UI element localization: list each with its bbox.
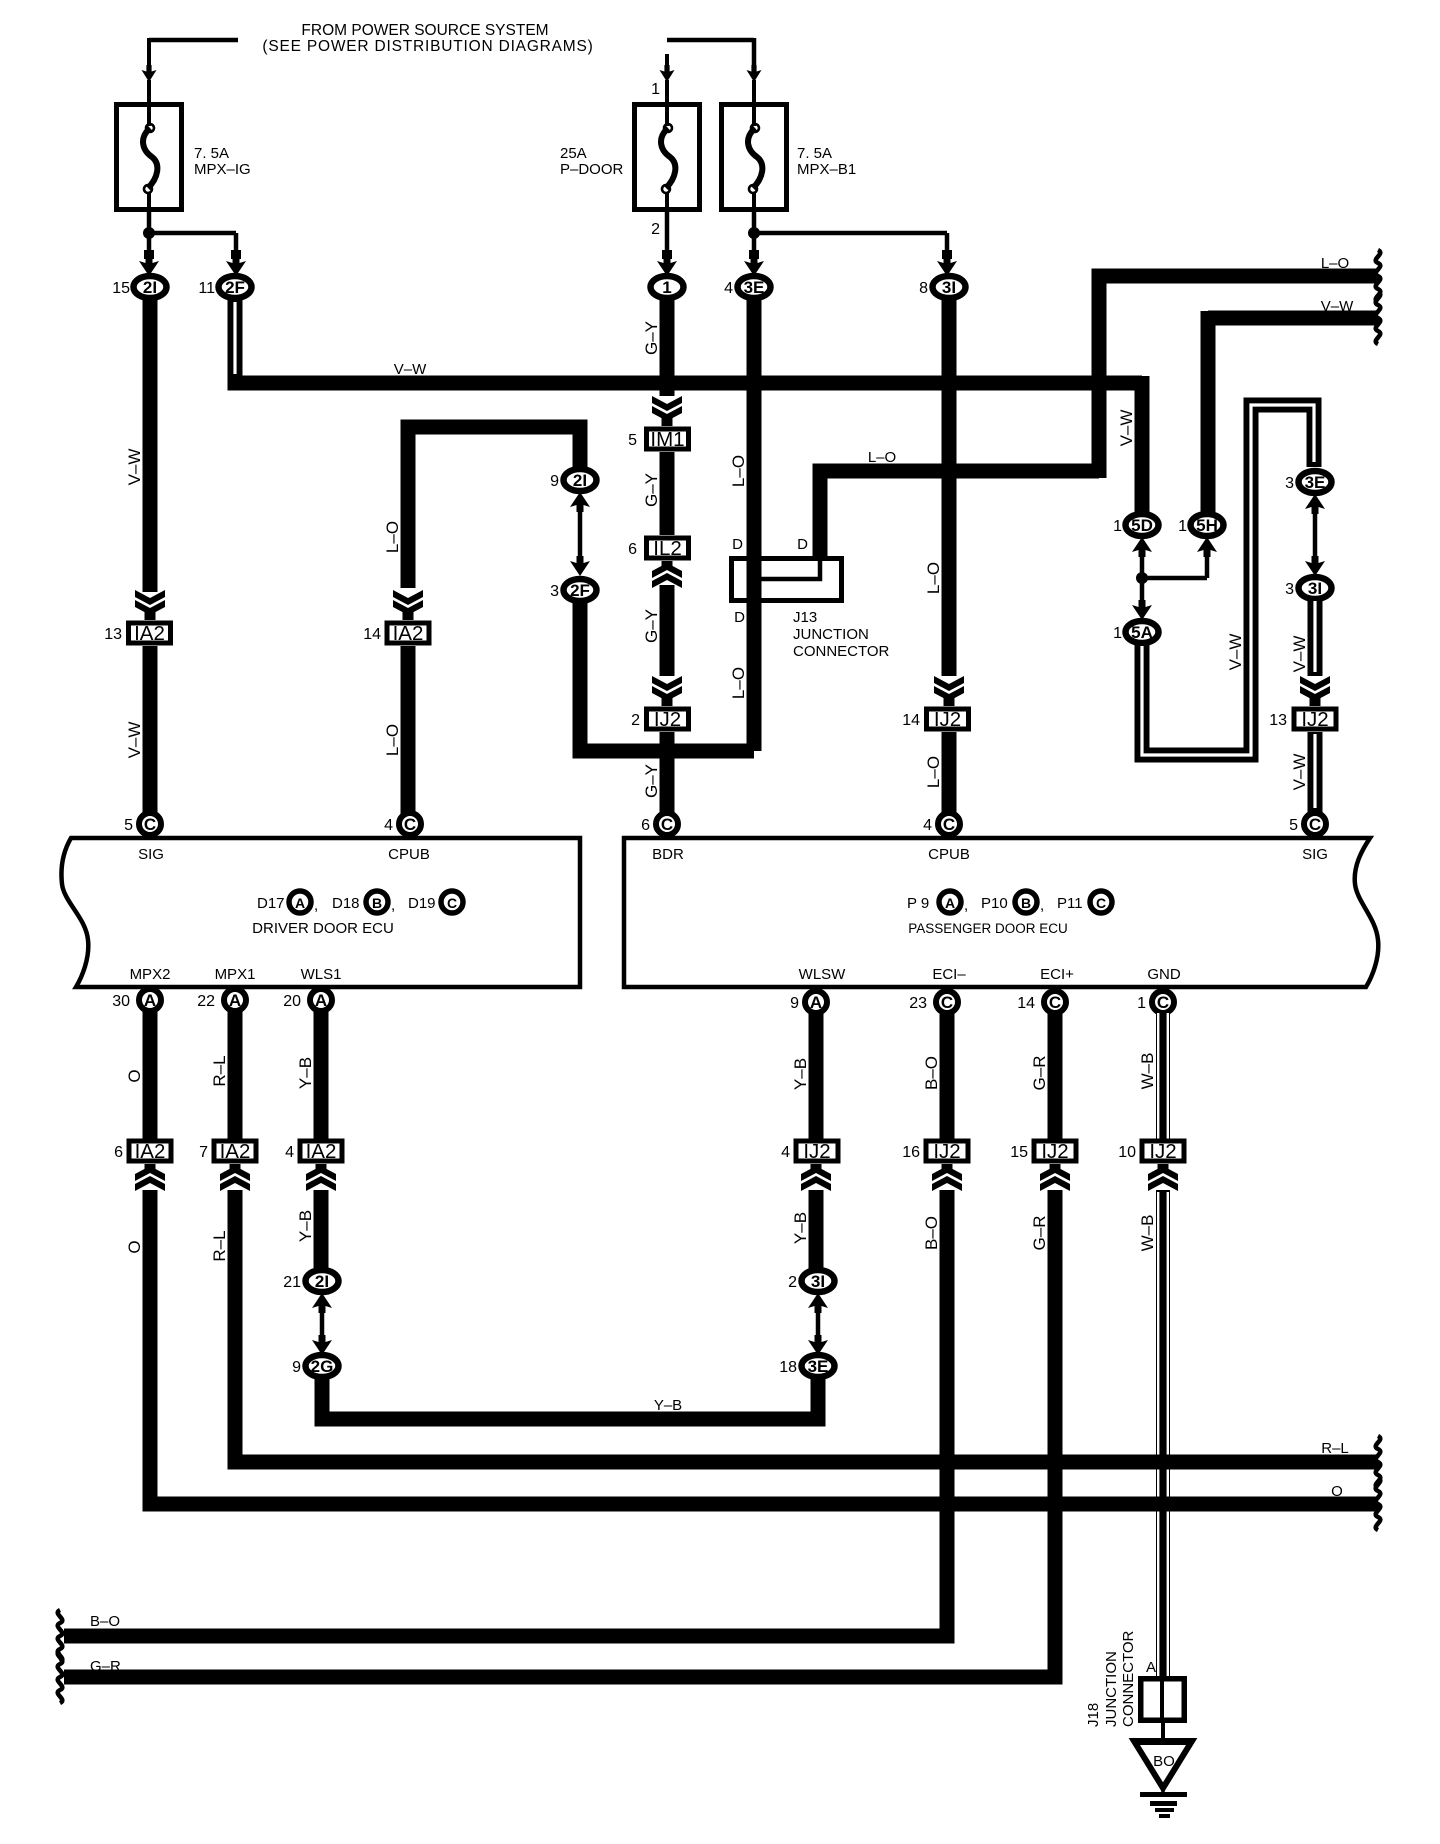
svg-text:G–R: G–R bbox=[1030, 1216, 1049, 1251]
svg-text:A: A bbox=[945, 895, 955, 911]
svg-text:2: 2 bbox=[651, 221, 660, 238]
svg-text:2: 2 bbox=[788, 1274, 797, 1291]
svg-text:IJ2: IJ2 bbox=[1301, 708, 1328, 731]
svg-text:BO: BO bbox=[1153, 1753, 1175, 1770]
svg-text:P11: P11 bbox=[1057, 895, 1083, 912]
svg-text:A: A bbox=[295, 895, 305, 911]
svg-text:13: 13 bbox=[1269, 712, 1287, 729]
driver ECU pin 4 CPUB bbox=[399, 813, 421, 835]
svg-text:10: 10 bbox=[1118, 1144, 1136, 1161]
svg-text:3: 3 bbox=[550, 583, 559, 600]
wire R-L: driver MPX1 down to IA2 (7) bbox=[228, 1011, 243, 1139]
svg-text:A: A bbox=[810, 993, 822, 1012]
svg-text:MPX–IG: MPX–IG bbox=[194, 161, 251, 178]
wire O: driver MPX2 down to IA2 (6) bbox=[143, 1011, 158, 1139]
svg-text:R–L: R–L bbox=[210, 1230, 229, 1261]
svg-text:22: 22 bbox=[197, 993, 215, 1010]
svg-text:L–O: L–O bbox=[383, 521, 402, 553]
svg-text:G–Y: G–Y bbox=[642, 764, 661, 798]
svg-text:,: , bbox=[391, 897, 395, 914]
svg-text:L–O: L–O bbox=[729, 667, 748, 699]
wire V-W: top bus to 5H bbox=[1208, 311, 1378, 518]
svg-text:C: C bbox=[661, 815, 673, 834]
svg-text:J18: J18 bbox=[1085, 1703, 1102, 1727]
svg-text:G–Y: G–Y bbox=[642, 321, 661, 355]
svg-text:G–Y: G–Y bbox=[642, 609, 661, 643]
svg-text:13: 13 bbox=[104, 626, 122, 643]
svg-text:SIG: SIG bbox=[138, 846, 164, 863]
svg-text:3: 3 bbox=[1285, 475, 1294, 492]
junction connector J13 bbox=[732, 559, 842, 601]
svg-text:WLS1: WLS1 bbox=[301, 966, 342, 983]
junction connector 7 IA2 bbox=[214, 1141, 256, 1161]
wire: J18 to ground bbox=[1161, 1723, 1165, 1744]
svg-text:15: 15 bbox=[112, 280, 130, 297]
svg-text:L–O: L–O bbox=[729, 455, 748, 487]
svg-text:5: 5 bbox=[124, 817, 133, 834]
svg-text:G–R: G–R bbox=[1030, 1056, 1049, 1091]
connector 1 5D bbox=[1126, 514, 1159, 536]
svg-text:B–O: B–O bbox=[922, 1056, 941, 1090]
svg-text:D19: D19 bbox=[408, 895, 436, 912]
svg-text:IJ2: IJ2 bbox=[803, 1140, 830, 1163]
connector 9 2I bbox=[564, 469, 597, 491]
driver ECU pin 5 SIG bbox=[139, 813, 161, 835]
svg-text:FROM POWER SOURCE SYSTEM: FROM POWER SOURCE SYSTEM bbox=[301, 22, 548, 39]
wire W-B: passenger GND down to IJ2 (10) bbox=[1156, 1013, 1170, 1139]
svg-text:V–W: V–W bbox=[1290, 754, 1309, 791]
svg-text:P–DOOR: P–DOOR bbox=[560, 161, 624, 178]
svg-text:B–O: B–O bbox=[922, 1216, 941, 1250]
svg-text:Y–B: Y–B bbox=[296, 1057, 315, 1089]
connector 1 5A bbox=[1126, 621, 1159, 643]
svg-text:IM1: IM1 bbox=[650, 428, 684, 451]
junction connector 15 IJ2 bbox=[1034, 1141, 1076, 1161]
junction connector 14 IJ2 bbox=[927, 709, 969, 729]
svg-text:IJ2: IJ2 bbox=[933, 1140, 960, 1163]
svg-text:V–W: V–W bbox=[1226, 634, 1245, 671]
svg-text:R–L: R–L bbox=[210, 1055, 229, 1086]
wire: MPX-IG fuse output to connectors 2I and 2F bbox=[147, 212, 152, 233]
svg-text:IA2: IA2 bbox=[393, 622, 424, 645]
fuse 7.5A MPX-B1 bbox=[722, 105, 787, 210]
svg-text:B–O: B–O bbox=[90, 1613, 120, 1630]
svg-text:IJ2: IJ2 bbox=[934, 708, 961, 731]
svg-text:C: C bbox=[144, 815, 156, 834]
svg-text:C: C bbox=[1096, 895, 1106, 911]
svg-text:4: 4 bbox=[285, 1144, 294, 1161]
wire R-L: bus across to right edge bbox=[228, 1455, 1379, 1470]
svg-text:ECI–: ECI– bbox=[932, 966, 966, 983]
wire G-Y: IJ2 (2) down to passenger ECU pin 6 BDR bbox=[660, 732, 675, 815]
junction connector 4 IA2 bbox=[300, 1141, 342, 1161]
svg-text:2F: 2F bbox=[225, 278, 245, 297]
wire Y-B: 2G down and right to 3E (18) bbox=[322, 1378, 818, 1419]
junction connector 10 IJ2 bbox=[1142, 1141, 1184, 1161]
driver door ECU box bbox=[61, 838, 580, 987]
svg-text:DRIVER DOOR ECU: DRIVER DOOR ECU bbox=[252, 920, 394, 937]
wire O: IA2 (6) down and right to O bus bbox=[143, 1190, 158, 1504]
svg-text:,: , bbox=[314, 897, 318, 914]
svg-text:IA2: IA2 bbox=[306, 1140, 337, 1163]
svg-text:C: C bbox=[1157, 993, 1169, 1012]
junction connector 16 IJ2 bbox=[926, 1141, 968, 1161]
connector 3 3I (right) bbox=[1299, 577, 1332, 599]
wire V-W: connector 2F down, V-W bus right to 5D drop bbox=[228, 296, 243, 383]
connector 3 2F bbox=[564, 579, 597, 601]
svg-text:D17: D17 bbox=[257, 895, 285, 912]
svg-text:2G: 2G bbox=[311, 1357, 334, 1376]
svg-text:1: 1 bbox=[662, 278, 671, 297]
svg-text:G–R: G–R bbox=[90, 1658, 121, 1675]
svg-text:B: B bbox=[372, 895, 382, 911]
connector 11 2F bbox=[219, 276, 252, 298]
wire Y-B: IA2 (4) down to connector 2I (21) bbox=[314, 1190, 329, 1270]
svg-text:MPX1: MPX1 bbox=[215, 966, 256, 983]
wire L-O: J13 branch up and right to top L-O bus bbox=[820, 276, 1378, 556]
svg-text:V–W: V–W bbox=[1321, 298, 1354, 315]
svg-text:C: C bbox=[943, 815, 955, 834]
junction connector J18 bbox=[1141, 1679, 1185, 1721]
svg-text:9: 9 bbox=[550, 473, 559, 490]
wire G-Y: connector 1 down to IM1 bbox=[660, 296, 675, 396]
wire V-W: 3I (3) down to IJ2 (13) bbox=[1308, 597, 1323, 676]
svg-text:5A: 5A bbox=[1131, 623, 1153, 642]
connector 1 5H bbox=[1191, 514, 1224, 536]
svg-text:4: 4 bbox=[384, 817, 393, 834]
svg-text:7: 7 bbox=[199, 1144, 208, 1161]
wire V-W: IJ2 (13) down to passenger ECU pin 5 SIG bbox=[1308, 732, 1323, 815]
svg-text:5H: 5H bbox=[1196, 516, 1218, 535]
svg-text:W–B: W–B bbox=[1138, 1053, 1157, 1090]
svg-text:3E: 3E bbox=[808, 1357, 829, 1376]
passenger ECU pin 5 SIG bbox=[1304, 813, 1326, 835]
svg-text:23: 23 bbox=[909, 995, 927, 1012]
svg-text:3E: 3E bbox=[744, 278, 765, 297]
svg-text:C: C bbox=[447, 895, 457, 911]
svg-text:1: 1 bbox=[1113, 518, 1122, 535]
svg-text:V–W: V–W bbox=[394, 361, 427, 378]
svg-text:L–O: L–O bbox=[868, 449, 896, 466]
junction connector 2 IJ2 bbox=[647, 709, 689, 729]
connector 8 3I bbox=[933, 276, 966, 298]
svg-text:D: D bbox=[797, 536, 808, 553]
svg-text:A: A bbox=[144, 991, 156, 1010]
wire L-O: link from 2F (3) to J13 branch bbox=[580, 601, 754, 751]
svg-text:3I: 3I bbox=[811, 1272, 825, 1291]
wire G-R: IJ2 (15) down and left to G-R bus bbox=[64, 1190, 1055, 1677]
junction connector 13 IA2 bbox=[129, 623, 171, 643]
svg-text:IJ2: IJ2 bbox=[1041, 1140, 1068, 1163]
connector 15 2I bbox=[134, 276, 167, 298]
svg-text:4: 4 bbox=[781, 1144, 790, 1161]
svg-text:O: O bbox=[125, 1069, 144, 1082]
svg-text:11: 11 bbox=[198, 280, 215, 297]
svg-text:L–O: L–O bbox=[924, 562, 943, 594]
svg-text:R–L: R–L bbox=[1321, 1440, 1349, 1457]
svg-text:PASSENGER DOOR ECU: PASSENGER DOOR ECU bbox=[908, 921, 1068, 936]
svg-text:6: 6 bbox=[114, 1144, 123, 1161]
svg-text:GND: GND bbox=[1147, 966, 1181, 983]
svg-text:5: 5 bbox=[1289, 817, 1298, 834]
svg-text:L–O: L–O bbox=[1321, 255, 1349, 272]
svg-text:A: A bbox=[315, 991, 327, 1010]
svg-text:18: 18 bbox=[779, 1359, 797, 1376]
wire Y-B: IJ2 (4) down to connector 3I (2) bbox=[809, 1190, 824, 1270]
svg-text:IA2: IA2 bbox=[135, 1140, 166, 1163]
svg-text:IA2: IA2 bbox=[134, 622, 165, 645]
svg-text:4: 4 bbox=[923, 817, 932, 834]
svg-text:A: A bbox=[229, 991, 241, 1010]
svg-text:P 9: P 9 bbox=[907, 895, 929, 912]
svg-text:6: 6 bbox=[628, 541, 637, 558]
connector 1 (P-DOOR output) bbox=[651, 276, 684, 298]
svg-text:6: 6 bbox=[641, 817, 650, 834]
wire B-O: passenger ECI- down to IJ2 (16) bbox=[940, 1013, 955, 1139]
svg-text:BDR: BDR bbox=[652, 846, 684, 863]
svg-text:D: D bbox=[734, 609, 745, 626]
junction connector 6 IA2 bbox=[129, 1141, 171, 1161]
svg-text:14: 14 bbox=[363, 626, 381, 643]
svg-text:V–W: V–W bbox=[125, 722, 144, 759]
svg-text:2F: 2F bbox=[570, 581, 590, 600]
svg-text:,: , bbox=[964, 897, 968, 914]
wire R-L: IA2 (7) down and right to R-L bus bbox=[228, 1190, 243, 1462]
svg-text:16: 16 bbox=[902, 1144, 920, 1161]
wire Y-B: passenger WLSW down to IJ2 (4) bbox=[809, 1013, 824, 1139]
svg-text:,: , bbox=[1040, 897, 1044, 914]
svg-text:C: C bbox=[1049, 993, 1061, 1012]
connector 9 2G bbox=[306, 1355, 339, 1377]
junction connector 14 IA2 bbox=[387, 623, 429, 643]
svg-text:3I: 3I bbox=[1308, 579, 1322, 598]
wire Y-B: driver WLS1 down to IA2 (4) bbox=[314, 1011, 329, 1139]
svg-text:1: 1 bbox=[1137, 995, 1146, 1012]
svg-text:JUNCTION: JUNCTION bbox=[1103, 1651, 1120, 1727]
wire: feed from power source to MPX-IG fuse bbox=[149, 38, 238, 43]
svg-text:1: 1 bbox=[1178, 518, 1187, 535]
svg-text:W–B: W–B bbox=[1138, 1215, 1157, 1252]
wire W-B: IJ2 (10) down to J18 bbox=[1156, 1190, 1170, 1676]
wire B-O: IJ2 (16) down and left to B-O bus bbox=[64, 1190, 947, 1636]
svg-text:Y–B: Y–B bbox=[654, 1397, 682, 1414]
wire: MPX-B1 fuse output to connectors 3E and 3I bbox=[752, 212, 757, 233]
svg-text:2: 2 bbox=[631, 712, 640, 729]
connector 3 3E (right) bbox=[1299, 471, 1332, 493]
svg-text:B: B bbox=[1021, 895, 1031, 911]
wire: 2I (9) to 2F (3) bbox=[570, 492, 590, 512]
junction connector 6 IL2 bbox=[647, 538, 689, 558]
svg-text:2I: 2I bbox=[573, 471, 587, 490]
junction connector 13 IJ2 bbox=[1294, 709, 1336, 729]
wire L-O: connector 3E down through J13 to link bbox=[747, 296, 762, 751]
svg-text:D18: D18 bbox=[332, 895, 360, 912]
svg-text:ECI+: ECI+ bbox=[1040, 966, 1074, 983]
svg-text:CONNECTOR: CONNECTOR bbox=[1120, 1630, 1137, 1727]
svg-text:SIG: SIG bbox=[1302, 846, 1328, 863]
wire: P-DOOR fuse pin 2 to connector 1 bbox=[665, 212, 670, 252]
connector 18 3E bbox=[802, 1355, 835, 1377]
svg-text:9: 9 bbox=[790, 995, 799, 1012]
connector 21 2I bbox=[306, 1270, 339, 1292]
wire G-Y: IL2 down to IJ2 (2) bbox=[662, 561, 673, 567]
passenger ECU pin 4 CPUB bbox=[938, 813, 960, 835]
svg-text:D: D bbox=[732, 536, 743, 553]
svg-text:2I: 2I bbox=[315, 1272, 329, 1291]
junction connector 5 IM1 bbox=[647, 429, 689, 449]
wire: 3E (3) to 3I (3) bbox=[1305, 494, 1325, 514]
svg-text:3: 3 bbox=[1285, 581, 1294, 598]
junction connector 4 IJ2 bbox=[796, 1141, 838, 1161]
svg-text:9: 9 bbox=[292, 1359, 301, 1376]
wire V-W: IA2 (13) down to driver ECU pin 5 SIG bbox=[143, 646, 158, 815]
svg-text:V–W: V–W bbox=[1117, 410, 1136, 447]
svg-text:MPX2: MPX2 bbox=[130, 966, 171, 983]
passenger ECU pin 6 BDR bbox=[656, 813, 678, 835]
svg-text:20: 20 bbox=[283, 993, 301, 1010]
svg-text:1: 1 bbox=[1113, 625, 1122, 642]
svg-text:CPUB: CPUB bbox=[928, 846, 970, 863]
svg-text:L–O: L–O bbox=[383, 724, 402, 756]
svg-text:G–Y: G–Y bbox=[642, 473, 661, 507]
fuse 25A P-DOOR bbox=[635, 105, 700, 210]
svg-text:Y–B: Y–B bbox=[791, 1058, 810, 1090]
wire L-O: connector 3I down to IJ2 (14) bbox=[942, 296, 957, 676]
svg-text:2I: 2I bbox=[143, 278, 157, 297]
fuse 7.5A MPX-IG bbox=[117, 105, 182, 210]
ground BO bbox=[1134, 1741, 1192, 1788]
svg-text:C: C bbox=[404, 815, 416, 834]
wire: 2I (21) to 2G (9) bbox=[312, 1293, 332, 1313]
wire L-O: top-left branch from 2I (9) to IA2 (14) bbox=[408, 427, 580, 588]
svg-text:C: C bbox=[941, 993, 953, 1012]
svg-text:IA2: IA2 bbox=[220, 1140, 251, 1163]
svg-text:7. 5A: 7. 5A bbox=[194, 145, 229, 162]
svg-text:P10: P10 bbox=[981, 895, 1008, 912]
svg-text:5D: 5D bbox=[1131, 516, 1153, 535]
svg-text:JUNCTION: JUNCTION bbox=[793, 626, 869, 643]
svg-text:14: 14 bbox=[1017, 995, 1035, 1012]
svg-text:15: 15 bbox=[1010, 1144, 1028, 1161]
svg-text:CONNECTOR: CONNECTOR bbox=[793, 643, 890, 660]
wire V-W: 5A down around to 3E (3) bbox=[1142, 405, 1314, 755]
svg-text:V–W: V–W bbox=[125, 449, 144, 486]
wire L-O: IA2 (14) down to driver ECU pin 4 CPUB bbox=[401, 646, 416, 815]
wire G-R: passenger ECI+ down to IJ2 (15) bbox=[1048, 1013, 1063, 1139]
svg-text:3I: 3I bbox=[942, 278, 956, 297]
svg-text:30: 30 bbox=[112, 993, 130, 1010]
wire: 5D / 5H join to 5A bbox=[1132, 537, 1152, 557]
svg-text:Y–B: Y–B bbox=[791, 1212, 810, 1244]
svg-text:5: 5 bbox=[628, 432, 637, 449]
connector 4 3E bbox=[738, 276, 771, 298]
svg-text:A: A bbox=[1146, 1659, 1156, 1676]
wire G-Y: IM1 down to IL2 bbox=[660, 452, 675, 535]
svg-text:7. 5A: 7. 5A bbox=[797, 145, 832, 162]
svg-text:8: 8 bbox=[919, 280, 928, 297]
svg-text:J13: J13 bbox=[793, 609, 817, 626]
svg-text:L–O: L–O bbox=[924, 756, 943, 788]
svg-text:V–W: V–W bbox=[1290, 636, 1309, 673]
wire O: bus across to right edge bbox=[143, 1497, 1379, 1512]
svg-text:3E: 3E bbox=[1305, 473, 1326, 492]
svg-text:1: 1 bbox=[651, 81, 660, 98]
svg-text:IJ2: IJ2 bbox=[654, 708, 681, 731]
svg-text:C: C bbox=[1309, 815, 1321, 834]
svg-text:CPUB: CPUB bbox=[388, 846, 430, 863]
svg-text:(SEE POWER DISTRIBUTION DIAGRA: (SEE POWER DISTRIBUTION DIAGRAMS) bbox=[262, 38, 593, 55]
fuse feed: P-DOOR and MPX-B1 from power source bbox=[667, 38, 754, 67]
svg-text:MPX–B1: MPX–B1 bbox=[797, 161, 856, 178]
svg-text:IJ2: IJ2 bbox=[1149, 1140, 1176, 1163]
connector 2 3I bbox=[802, 1270, 835, 1292]
svg-text:4: 4 bbox=[724, 280, 733, 297]
wire: 3I (2) to 3E (18) bbox=[808, 1293, 828, 1313]
svg-text:14: 14 bbox=[902, 712, 920, 729]
svg-text:WLSW: WLSW bbox=[799, 966, 847, 983]
svg-text:O: O bbox=[125, 1240, 144, 1253]
wire V-W: connector 2I down to junction IA2 (13) bbox=[143, 296, 158, 592]
wire L-O: IJ2 (14) down to passenger ECU pin 4 CPUB bbox=[942, 732, 957, 815]
passenger door ECU box bbox=[624, 838, 1378, 987]
svg-text:IL2: IL2 bbox=[653, 537, 682, 560]
svg-text:21: 21 bbox=[283, 1274, 301, 1291]
svg-text:25A: 25A bbox=[560, 145, 587, 162]
svg-text:Y–B: Y–B bbox=[296, 1210, 315, 1242]
